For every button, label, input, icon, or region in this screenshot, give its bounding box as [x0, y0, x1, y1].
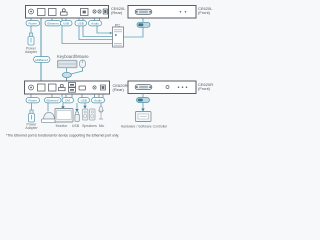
- wire: HDBaseT link long vertical: [40, 18, 42, 85]
- label CE620R (Front): [198, 82, 213, 91]
- capsule: Ethernet* (bottom): [45, 98, 62, 103]
- port: USB console (bottom): [59, 84, 66, 90]
- wire: RS-232 down to controller: [142, 94, 144, 111]
- port: grub (bottom): [101, 85, 106, 90]
- port: RS-232 front (bottom): [135, 85, 152, 90]
- remote unit rear panel CE620R: [25, 81, 110, 94]
- remote front panel CE620R: [128, 81, 196, 94]
- capsule: Audio (bottom): [92, 98, 105, 103]
- port: mic jack (top): [93, 10, 96, 13]
- port: RS-232 (top): [81, 9, 89, 16]
- svg-text:Adapter: Adapter: [25, 126, 38, 130]
- svg-text:USB: USB: [78, 22, 84, 26]
- wire ticks under remote rear: [30, 94, 32, 98]
- capsule: HDBaseT on link wire: [34, 57, 51, 63]
- svg-text:HDBaseT: HDBaseT: [35, 58, 48, 62]
- wire: serial cable to PC: [79, 26, 113, 40]
- capsule: USB (bottom): [78, 98, 90, 103]
- wire: usb2 cable to PC: [83, 26, 113, 37]
- svg-text:Hardware / Software Controller: Hardware / Software Controller: [121, 124, 168, 128]
- port: speaker jack (top): [98, 10, 101, 13]
- svg-text:*The Ethernet port is function: *The Ethernet port is functional for dev…: [6, 134, 119, 138]
- microphone: [99, 107, 104, 120]
- wire: power capsule to plug (bottom): [31, 103, 33, 110]
- port: HDBaseT RJ45 (bottom): [38, 84, 46, 91]
- wire: keyboard to hub: [66, 68, 68, 73]
- capsule: Power (top): [26, 21, 40, 26]
- label Power Adapter (bottom): [25, 123, 38, 131]
- svg-text:Adapter: Adapter: [25, 50, 38, 54]
- wire: audio to mic: [100, 103, 102, 106]
- svg-text:Power: Power: [28, 99, 37, 103]
- wire: mouse to hub: [71, 68, 83, 74]
- svg-text:Audio: Audio: [91, 22, 99, 26]
- PC tower: [113, 23, 124, 47]
- wire: DVI to monitor with arrow: [62, 103, 64, 107]
- svg-text:Speakers: Speakers: [82, 124, 97, 128]
- LEDs front (bottom): [178, 86, 180, 88]
- svg-text:(Rear): (Rear): [111, 10, 123, 15]
- capsule: USB a (top): [61, 21, 73, 26]
- keyboard icon: [58, 60, 78, 68]
- capsule: Power (bottom): [26, 98, 40, 103]
- capsule: USB b (top): [75, 21, 87, 26]
- wire: hub to remote unit: [66, 78, 68, 83]
- port: DC jack (bottom): [29, 85, 34, 90]
- mouse icon: [80, 60, 86, 68]
- speakers: [83, 109, 96, 120]
- port: HDBaseT RJ45 (top): [38, 9, 46, 16]
- svg-text:DVI: DVI: [65, 99, 70, 103]
- wire: usb ticks: [61, 18, 63, 21]
- svg-text:Monitor: Monitor: [56, 124, 69, 128]
- svg-text:Ethernet: Ethernet: [47, 22, 59, 26]
- port: DC jack (top): [29, 9, 34, 14]
- local front panel CE620L: [128, 6, 196, 19]
- label CE620L (Front): [198, 6, 213, 15]
- label Power Adapter (top): [25, 47, 38, 55]
- port: mic jack (bottom): [93, 86, 96, 89]
- svg-text:USB: USB: [81, 99, 87, 103]
- controller device: [136, 112, 152, 122]
- local unit rear panel CE620L: [26, 6, 109, 19]
- connector: serial cable joint (bottom): [137, 98, 150, 103]
- svg-text:(Front): (Front): [198, 10, 211, 15]
- label CE620L (Rear): [111, 6, 126, 15]
- svg-text:(Rear): (Rear): [113, 87, 125, 92]
- port: DVI out (bottom): [79, 86, 86, 90]
- cable hub ellipse: [62, 72, 71, 77]
- power adapter plug (top): [28, 33, 34, 45]
- svg-text:(Front): (Front): [198, 86, 211, 91]
- capsule: Ethernet (top): [45, 21, 61, 26]
- svg-text:Keyboard/Mouse: Keyboard/Mouse: [57, 54, 89, 59]
- svg-text:USB: USB: [72, 124, 80, 128]
- port: dual USB stack (bottom): [69, 83, 76, 93]
- wire: audio cable to PC: [97, 26, 113, 34]
- port: grub (top): [103, 9, 107, 14]
- button front (bottom): [166, 86, 169, 89]
- wire: audio to speakers: [84, 103, 86, 106]
- wire: ethernet tick: [51, 18, 53, 21]
- Keyboard/Mouse group (middle): [57, 54, 89, 59]
- label CE620R (Rear): [113, 83, 128, 92]
- capsule: Audio (top): [89, 21, 102, 26]
- wire: DVI cable from front unit to PC: [124, 18, 144, 37]
- power adapter plug (bottom): [29, 110, 35, 122]
- LEDs front (top): [180, 11, 182, 13]
- usb peripheral stick: [75, 112, 79, 121]
- svg-text:Power: Power: [28, 22, 37, 26]
- svg-text:Ethernet*: Ethernet*: [46, 99, 59, 103]
- svg-text:Audio: Audio: [94, 99, 102, 103]
- port: USB console (top): [61, 9, 68, 15]
- monitor icon: [55, 109, 73, 123]
- wire: ethernet to printer: [47, 103, 49, 112]
- wire: power to adapter (top): [30, 18, 32, 34]
- port: LAN RJ45 (top): [49, 9, 57, 16]
- port: LAN RJ45 (bottom): [49, 84, 57, 91]
- wire: usb cable to PC (outer): [62, 26, 116, 48]
- printer (ethernet device): [42, 113, 57, 123]
- svg-text:Mic: Mic: [99, 124, 105, 128]
- svg-text:USB: USB: [63, 22, 69, 26]
- capsule: DVI (bottom): [62, 98, 74, 103]
- port: DVI front (top): [135, 9, 152, 14]
- wire: usb capsule to stick: [76, 103, 78, 110]
- connector: DVI cable joint (top): [137, 22, 150, 27]
